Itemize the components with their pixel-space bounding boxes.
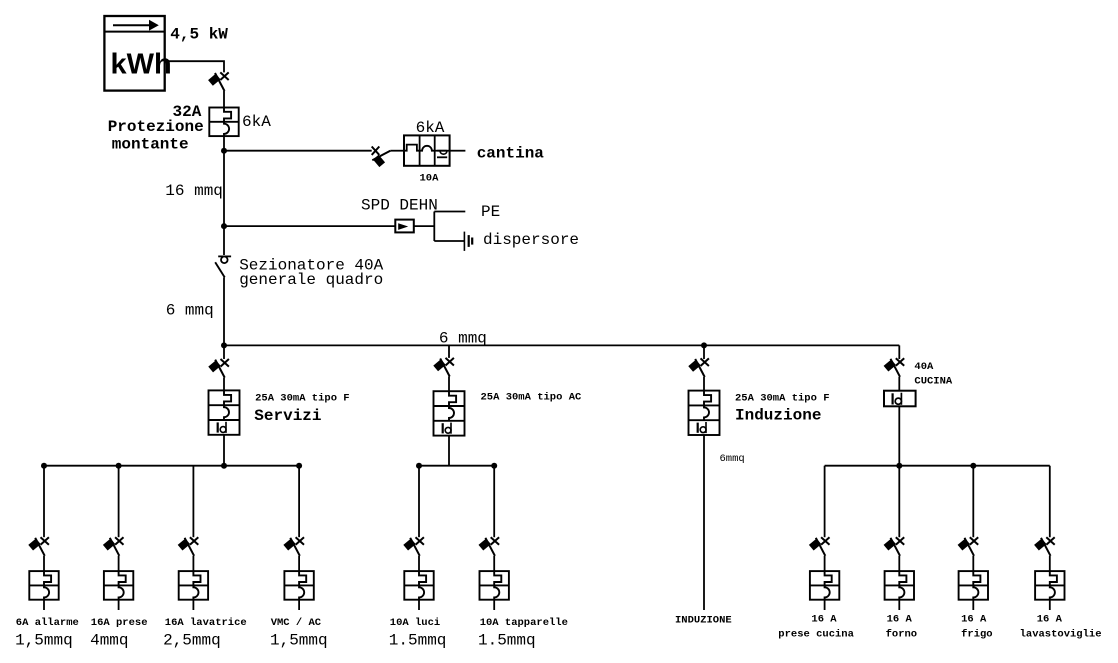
svg-text:1.5mmq: 1.5mmq	[478, 631, 536, 649]
svg-text:1,5mmq: 1,5mmq	[270, 631, 328, 649]
svg-text:generale quadro: generale quadro	[239, 271, 383, 289]
svg-text:dispersore: dispersore	[483, 231, 579, 249]
svg-text:forno: forno	[886, 628, 918, 640]
svg-text:VMC / AC: VMC / AC	[271, 617, 322, 629]
svg-text:16 A: 16 A	[887, 614, 913, 626]
svg-text:6mmq: 6mmq	[720, 453, 745, 465]
svg-text:frigo: frigo	[961, 628, 993, 640]
svg-text:Servizi: Servizi	[254, 407, 321, 425]
svg-text:6kA: 6kA	[242, 113, 271, 131]
svg-text:16 A: 16 A	[811, 614, 837, 626]
svg-text:25A 30mA tipo F: 25A 30mA tipo F	[735, 393, 830, 405]
svg-text:Induzione: Induzione	[735, 407, 821, 425]
svg-text:INDUZIONE: INDUZIONE	[675, 615, 732, 627]
svg-text:SPD DEHN: SPD DEHN	[361, 197, 438, 215]
svg-text:6 mmq: 6 mmq	[166, 302, 214, 320]
svg-text:kWh: kWh	[111, 49, 172, 81]
svg-text:10A luci: 10A luci	[390, 617, 440, 629]
svg-text:CUCINA: CUCINA	[914, 376, 953, 388]
svg-text:Protezione: Protezione	[108, 118, 204, 136]
svg-text:cantina: cantina	[477, 145, 545, 163]
svg-text:1.5mmq: 1.5mmq	[389, 631, 447, 649]
svg-text:16 A: 16 A	[1037, 614, 1063, 626]
svg-text:lavastoviglie: lavastoviglie	[1020, 628, 1102, 640]
svg-text:2,5mmq: 2,5mmq	[163, 631, 221, 649]
svg-text:6A allarme: 6A allarme	[16, 617, 79, 629]
svg-text:16 mmq: 16 mmq	[165, 182, 223, 200]
svg-text:25A 30mA tipo AC: 25A 30mA tipo AC	[481, 392, 583, 404]
svg-text:16 A: 16 A	[961, 614, 987, 626]
svg-text:40A: 40A	[914, 361, 934, 373]
svg-text:6kA: 6kA	[416, 119, 445, 137]
svg-text:montante: montante	[112, 135, 189, 153]
svg-text:1,5mmq: 1,5mmq	[15, 631, 73, 649]
svg-text:4mmq: 4mmq	[90, 631, 128, 649]
svg-text:10A: 10A	[420, 173, 440, 185]
svg-text:16A lavatrice: 16A lavatrice	[165, 617, 247, 629]
svg-text:16A prese: 16A prese	[91, 617, 148, 629]
svg-text:prese cucina: prese cucina	[778, 628, 854, 640]
svg-text:4,5 kW: 4,5 kW	[170, 26, 228, 44]
svg-text:6 mmq: 6 mmq	[439, 330, 487, 348]
svg-text:10A tapparelle: 10A tapparelle	[480, 617, 568, 629]
svg-text:PE: PE	[481, 203, 500, 221]
svg-text:25A 30mA tipo F: 25A 30mA tipo F	[255, 392, 350, 404]
